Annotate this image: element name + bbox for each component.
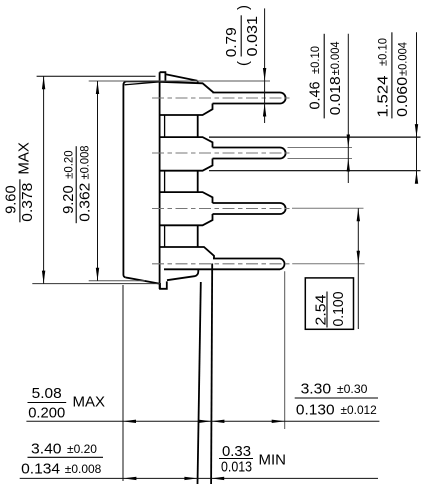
pin 2 <box>213 148 286 159</box>
pin strip right edge segment 1 <box>164 115 166 137</box>
body rib wall between pin3 and pin4 <box>197 225 199 247</box>
body bottom edge right <box>167 269 198 280</box>
pin strip right edge segment 2 <box>164 171 166 192</box>
label 1.524/0.060 tolerances <box>374 32 411 118</box>
label 3.30/0.130 tolerances <box>295 381 378 419</box>
label box 2.54/0.100 <box>305 278 353 329</box>
svg-text:0.46: 0.46 <box>307 82 324 110</box>
svg-text:0.378: 0.378 <box>19 183 36 222</box>
svg-text:0.362: 0.362 <box>76 183 93 222</box>
body top right corner <box>197 81 199 83</box>
pin strip top tab <box>160 72 166 81</box>
body rib wall between pin1 and pin2 <box>197 115 199 137</box>
pin strip bottom tab <box>160 281 167 288</box>
svg-text:±0.30: ±0.30 <box>337 382 368 396</box>
dimension 0.79 arrow up <box>263 104 266 117</box>
svg-text:0.130: 0.130 <box>296 402 335 419</box>
extension line bottom 9.60 <box>32 283 160 285</box>
svg-text:MIN: MIN <box>259 452 287 469</box>
label 9.60/0.378 MAX <box>2 142 36 222</box>
pin 1 <box>213 93 286 104</box>
extension lines 1.524 shoulder <box>209 137 421 171</box>
dimension 5.08 arrow right <box>198 420 211 423</box>
dimension 1.524 line <box>416 32 418 183</box>
svg-text:3.40: 3.40 <box>31 441 62 458</box>
label 0.46/0.018 tolerances <box>307 34 344 119</box>
svg-text:±0.004: ±0.004 <box>328 41 342 75</box>
svg-text:): ) <box>235 5 252 10</box>
pin 1 shoulder <box>160 82 214 115</box>
body left edge <box>123 81 126 277</box>
svg-text:±0.20: ±0.20 <box>61 150 75 179</box>
svg-text:0.060: 0.060 <box>394 77 411 117</box>
svg-text:MAX: MAX <box>15 142 32 175</box>
pin 2 shoulder <box>160 137 213 171</box>
dimension line 5.08 and 3.30 <box>26 420 379 422</box>
dimension line 3.40 and 0.33 <box>20 477 378 479</box>
dimension 0.46 arrow up <box>347 159 350 172</box>
dimension 9.60 arrow up <box>42 76 45 89</box>
dimension 9.20 arrow up <box>96 81 99 94</box>
svg-text:(: ( <box>235 61 252 66</box>
body bottom edge left <box>126 278 160 284</box>
label 5.08/0.200 MAX <box>28 385 106 421</box>
pin 4 <box>164 259 285 270</box>
body top right bevel <box>166 74 198 81</box>
svg-text:0.013: 0.013 <box>221 458 252 475</box>
extension line bottom 9.20 <box>89 280 145 282</box>
dimension 0.46 arrow down <box>347 135 350 148</box>
extension line top 9.20 and 0.79 <box>89 80 270 82</box>
dimension 9.60 line <box>43 76 45 283</box>
solder tail right edge <box>211 264 212 485</box>
svg-text:±0.10: ±0.10 <box>376 38 390 66</box>
label 0.33/0.013 MIN <box>219 443 286 475</box>
svg-text:0.031: 0.031 <box>244 16 261 57</box>
svg-text:0.79: 0.79 <box>223 27 240 57</box>
dimension 9.20 line <box>97 81 99 281</box>
dimension 5.08 arrow left <box>123 420 136 423</box>
svg-text:0.134: 0.134 <box>21 461 60 478</box>
dimension 9.20 arrow down <box>96 268 99 281</box>
body top edge draft line <box>125 82 160 85</box>
dimension 0.79 arrow down <box>263 68 266 81</box>
dimension 3.40 arrow right <box>184 477 197 480</box>
svg-text:0.018: 0.018 <box>327 76 344 115</box>
pin 4 centerline <box>152 263 290 265</box>
svg-text:3.30: 3.30 <box>301 381 332 398</box>
dimension 0.46 line <box>347 34 349 183</box>
svg-text:1.524: 1.524 <box>374 76 391 118</box>
svg-text:9.60: 9.60 <box>2 185 19 214</box>
svg-text:MAX: MAX <box>73 394 106 411</box>
pin strip left edge <box>159 72 161 289</box>
extension line 3.30 right <box>284 271 286 429</box>
body top edge flat <box>127 80 160 82</box>
svg-text:5.08: 5.08 <box>32 385 62 402</box>
dimension 0.33 arrow <box>211 477 224 480</box>
pin 3 shoulder <box>160 192 213 225</box>
pin 3 <box>213 203 286 214</box>
dimension 3.30 arrow right <box>272 420 285 423</box>
dimension 2.54 arrow up <box>357 208 360 221</box>
label (0.79/0.031) <box>223 5 261 66</box>
svg-text:±0.012: ±0.012 <box>341 403 378 417</box>
dimension 3.40 arrow left <box>123 477 136 480</box>
svg-text:±0.20: ±0.20 <box>67 442 97 456</box>
svg-text:±0.008: ±0.008 <box>65 462 102 476</box>
pin 2 centerline <box>152 152 290 154</box>
pin strip right edge segment 3 <box>164 225 166 247</box>
pin 4 shoulder <box>160 247 214 259</box>
pin 1 centerline <box>152 97 290 99</box>
extension line body left for 5.08 and 3.40 <box>122 285 124 481</box>
extension line pin 3 center <box>292 207 364 209</box>
svg-text:±0.004: ±0.004 <box>396 42 410 76</box>
extension lines 0.46 at pin 2 <box>288 148 353 159</box>
svg-text:0.200: 0.200 <box>28 404 65 421</box>
solder tail left edge <box>198 282 201 484</box>
dimension 2.54 arrow down <box>357 251 360 264</box>
svg-text:9.20: 9.20 <box>60 185 77 214</box>
dimension 1.524 arrow down <box>415 124 418 137</box>
svg-text:±0.10: ±0.10 <box>308 46 322 74</box>
label 9.20/0.362 tolerances <box>60 145 93 223</box>
body rib wall between pin2 and pin3 <box>197 171 199 192</box>
svg-text:0.100: 0.100 <box>330 292 347 327</box>
dimension 0.79 line <box>264 8 266 123</box>
extension line top 9.60 <box>37 75 156 77</box>
extension line pin 4 center <box>292 263 364 265</box>
label 3.40/0.134 tolerances <box>21 441 103 478</box>
pin 3 centerline <box>152 208 290 210</box>
dimension 3.30 arrow left <box>211 420 224 423</box>
dimension 1.524 arrow up <box>415 171 418 184</box>
dimension 2.54 line <box>357 208 359 329</box>
dimension 9.60 arrow down <box>42 271 45 284</box>
svg-text:±0.008: ±0.008 <box>78 145 92 179</box>
